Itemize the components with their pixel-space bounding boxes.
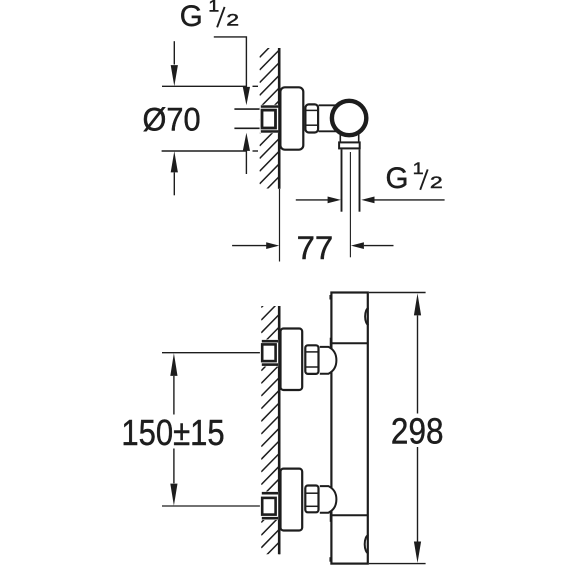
svg-text:150±15: 150±15 bbox=[121, 414, 224, 454]
upper socket bar bottom bbox=[262, 363, 278, 366]
outlet fitting flange bbox=[339, 142, 360, 148]
dimension Ø70 arrows bbox=[173, 41, 175, 64]
valve body circle (side view) bbox=[332, 101, 366, 135]
dimension G 1/2 outlet: left arrow bbox=[296, 199, 328, 201]
body corner step top bbox=[329, 295, 331, 300]
lower square union nut bbox=[262, 498, 275, 515]
svg-text:2: 2 bbox=[226, 12, 239, 30]
dimension 150±15 line + arrows bbox=[170, 353, 177, 376]
union dome lower bbox=[320, 486, 337, 513]
boss edge jog lower bbox=[330, 513, 332, 522]
leader G 1/2 top bbox=[214, 37, 247, 87]
svg-text:77: 77 bbox=[297, 229, 334, 266]
svg-text:G: G bbox=[180, 0, 203, 33]
dimension 298 line + arrows bbox=[414, 293, 421, 315]
body corner step bottom bbox=[329, 557, 331, 562]
extension line flange top (y=86.3) bbox=[162, 85, 247, 87]
hex nut facet lines bbox=[305, 109, 319, 111]
svg-text:298: 298 bbox=[391, 412, 444, 452]
lower wall socket white backing bbox=[260, 491, 278, 520]
hex nut (top view) bbox=[305, 104, 318, 132]
extension line lower connection bbox=[162, 505, 262, 507]
boss edge jog upper bbox=[330, 338, 332, 348]
escutcheon flange upper (front view) bbox=[281, 329, 303, 391]
wall socket bar top bbox=[261, 105, 279, 108]
wall face line (front view) bbox=[278, 306, 281, 554]
hex nut upper (front view) bbox=[305, 345, 318, 374]
lower socket bar top bbox=[262, 492, 278, 495]
298 extension line bottom bbox=[369, 563, 426, 565]
thermostat body bbox=[331, 293, 367, 564]
escutcheon flange (top view) bbox=[280, 87, 303, 149]
valve body link bbox=[319, 104, 338, 106]
upper square union nut bbox=[262, 344, 275, 361]
outlet pipe down bbox=[341, 149, 343, 211]
extension line upper connection bbox=[162, 352, 262, 354]
upper wall socket white backing bbox=[260, 339, 278, 366]
lower union nut inner arc bbox=[274, 500, 277, 512]
leader arrow down to pipe bbox=[243, 87, 250, 105]
wall face line (top view) bbox=[278, 48, 281, 189]
wall face extension line down bbox=[279, 189, 281, 262]
square pipe union nut (top view) bbox=[262, 110, 276, 128]
dimension 77: right arrow bbox=[351, 242, 364, 249]
svg-text:1: 1 bbox=[413, 159, 424, 177]
union nut inner arc bbox=[274, 113, 277, 126]
hex nut lower (front view) bbox=[305, 486, 318, 513]
boss line upper bbox=[331, 342, 368, 344]
arrow up from below pipe bbox=[243, 133, 250, 151]
lower socket bar bottom bbox=[262, 517, 278, 520]
wall socket bar bottom bbox=[261, 130, 279, 133]
svg-text:Ø70: Ø70 bbox=[142, 102, 200, 138]
outlet pipe centerline bbox=[349, 152, 351, 257]
escutcheon flange lower (front view) bbox=[281, 469, 303, 531]
upper union nut inner arc bbox=[274, 347, 277, 359]
dimension 77: left arrow bbox=[232, 245, 267, 247]
supply pipe behind wall bbox=[234, 108, 261, 110]
screw head upper bbox=[365, 308, 368, 325]
screw head lower bbox=[365, 535, 369, 553]
svg-text:1: 1 bbox=[208, 0, 219, 15]
svg-text:2: 2 bbox=[430, 174, 443, 192]
extension line flange bottom (y=151) bbox=[162, 150, 247, 152]
svg-text:G: G bbox=[386, 162, 409, 195]
boss line lower bbox=[331, 514, 368, 516]
outlet neck below circle bbox=[339, 135, 341, 142]
union dome upper bbox=[320, 347, 337, 374]
298 extension line top bbox=[369, 292, 426, 294]
wall socket white backing bbox=[260, 105, 279, 133]
upper socket bar top bbox=[262, 340, 278, 343]
dimension G 1/2 outlet: right arrow bbox=[361, 197, 374, 204]
